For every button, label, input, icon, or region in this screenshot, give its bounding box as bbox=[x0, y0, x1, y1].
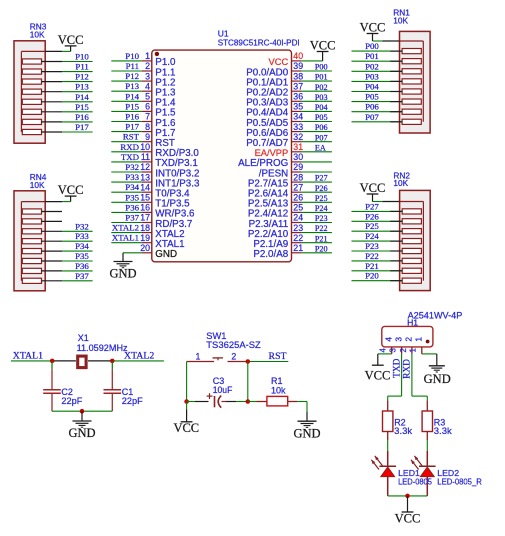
net label RST + wire bbox=[248, 351, 288, 362]
svg-text:29: 29 bbox=[293, 162, 303, 172]
U1 pin 8 (P1.7): pin stub, wire, pin number, pin name bbox=[111, 122, 175, 139]
svg-text:P11: P11 bbox=[75, 62, 88, 72]
svg-text:36: 36 bbox=[293, 92, 303, 102]
svg-text:P14: P14 bbox=[125, 91, 139, 101]
junction node SW1 left bottom bbox=[184, 399, 189, 404]
RN2 resistor element 3 + wire + net label P25 bbox=[352, 221, 422, 234]
U1 pin 1 (P1.0): pin stub, wire, pin number, pin name bbox=[111, 51, 176, 68]
svg-text:40: 40 bbox=[293, 51, 303, 61]
svg-text:14: 14 bbox=[140, 182, 150, 192]
resistor network RN2 10K body bbox=[400, 190, 431, 290]
ground symbol at U1 pin 20 bbox=[109, 253, 136, 281]
RN4 resistor element 3 + wire + net label P32 bbox=[22, 221, 92, 234]
svg-text:P35: P35 bbox=[125, 192, 139, 202]
svg-text:STC89C51RC-40I-PDI: STC89C51RC-40I-PDI bbox=[218, 37, 300, 47]
RN2 common pin wire to VCC bbox=[373, 201, 424, 203]
svg-text:26: 26 bbox=[293, 193, 303, 203]
svg-text:P24: P24 bbox=[315, 204, 328, 213]
svg-text:31: 31 bbox=[293, 142, 303, 152]
svg-text:10k: 10k bbox=[271, 385, 286, 395]
U1 pin 7 (P1.6): pin stub, wire, pin number, pin name bbox=[111, 112, 176, 129]
H1 pin 1 wire to GND bbox=[422, 354, 437, 366]
U1 pin 15 (T1/P3.5): pin stub, wire, pin number, pin name bbox=[111, 192, 190, 209]
svg-text:1: 1 bbox=[414, 337, 424, 342]
RN4 resistor element 5 + wire + net label P34 bbox=[22, 241, 92, 254]
H1 pin 3: stub and rotated pin numbers bbox=[389, 337, 404, 354]
svg-text:12: 12 bbox=[140, 162, 150, 172]
svg-text:3: 3 bbox=[393, 337, 403, 342]
part number STC89C51RC-40I-PDI bbox=[218, 37, 300, 47]
svg-text:1: 1 bbox=[145, 51, 150, 61]
svg-text:22: 22 bbox=[293, 233, 303, 243]
svg-text:P33: P33 bbox=[125, 172, 139, 182]
svg-text:6: 6 bbox=[145, 102, 150, 112]
svg-text:10K: 10K bbox=[30, 30, 45, 40]
VCC power symbol at RN1 bbox=[360, 21, 386, 42]
svg-text:1: 1 bbox=[196, 352, 201, 362]
H1 pin 4 wire to VCC bbox=[378, 354, 392, 365]
svg-text:P27: P27 bbox=[365, 201, 379, 211]
svg-text:XTAL2: XTAL2 bbox=[124, 350, 154, 361]
svg-text:11: 11 bbox=[141, 152, 150, 162]
U1 pin 6 (P1.5): pin stub, wire, pin number, pin name bbox=[111, 101, 176, 118]
svg-text:5: 5 bbox=[145, 92, 150, 102]
designator X1 bbox=[78, 333, 89, 343]
wire LED bottom bus bbox=[388, 495, 428, 497]
svg-text:P07: P07 bbox=[365, 112, 379, 122]
svg-text:P32: P32 bbox=[125, 162, 139, 172]
U1 pin 28 (P2.7/A15): pin stub, wire, pin number, pin name bbox=[248, 172, 332, 189]
VCC power symbol at RN2 bbox=[360, 181, 386, 202]
RN3 resistor element 2 + wire + net label P11 bbox=[22, 62, 92, 75]
svg-text:LED-0805: LED-0805 bbox=[398, 477, 432, 487]
junction node XTAL1/C2 bbox=[50, 359, 55, 364]
header H1 A2541WV-4P body bbox=[382, 326, 433, 347]
svg-text:22pF: 22pF bbox=[61, 396, 83, 406]
svg-text:39: 39 bbox=[293, 61, 303, 71]
VCC power symbol at H1 pin 4 bbox=[365, 365, 391, 382]
RN3 resistor element 7 + wire + net label P16 bbox=[22, 112, 92, 125]
RN2 resistor element 7 + wire + net label P21 bbox=[352, 261, 422, 274]
VCC power symbol at RN4 bbox=[58, 183, 84, 202]
part number A2541WV-4P bbox=[408, 311, 463, 321]
net label XTAL1 + wire bbox=[11, 350, 52, 361]
svg-text:24: 24 bbox=[293, 213, 303, 223]
svg-text:21: 21 bbox=[293, 243, 303, 253]
svg-text:20: 20 bbox=[140, 243, 150, 253]
svg-text:P01: P01 bbox=[315, 73, 328, 82]
svg-text:P00: P00 bbox=[365, 41, 379, 51]
svg-text:GND: GND bbox=[109, 267, 136, 281]
ground symbol below C1/C2 bbox=[68, 411, 95, 440]
svg-text:P21: P21 bbox=[315, 234, 328, 243]
RN1 resistor element 3 + wire + net label P02 bbox=[352, 61, 422, 74]
svg-text:VCC: VCC bbox=[360, 181, 386, 195]
U1 pin 16 (WR/P3.6): pin stub, wire, pin number, pin name bbox=[111, 202, 195, 219]
svg-text:P17: P17 bbox=[75, 122, 89, 132]
svg-text:P36: P36 bbox=[125, 202, 139, 212]
svg-text:27: 27 bbox=[293, 182, 303, 192]
svg-text:P02: P02 bbox=[315, 83, 328, 92]
svg-text:XTAL2: XTAL2 bbox=[112, 223, 139, 233]
svg-text:37: 37 bbox=[293, 81, 303, 91]
svg-text:LED-0805_R: LED-0805_R bbox=[437, 477, 482, 487]
LED LED2 LED-0805_R bbox=[411, 440, 436, 496]
svg-text:RST: RST bbox=[269, 351, 287, 362]
svg-text:P34: P34 bbox=[75, 241, 89, 251]
svg-text:P05: P05 bbox=[315, 113, 328, 122]
svg-text:VCC: VCC bbox=[58, 183, 84, 197]
svg-text:32: 32 bbox=[293, 132, 303, 142]
svg-text:13: 13 bbox=[140, 172, 150, 182]
svg-text:P22: P22 bbox=[315, 224, 328, 233]
svg-text:25: 25 bbox=[293, 203, 303, 213]
RN1 resistor element 8 + wire + net label P07 bbox=[352, 112, 422, 125]
svg-text:P34: P34 bbox=[125, 182, 139, 192]
svg-text:23: 23 bbox=[293, 223, 303, 233]
value LED-0805 (LED1) bbox=[398, 477, 432, 487]
svg-text:P06: P06 bbox=[365, 102, 379, 112]
VCC power symbol below SW1 bbox=[173, 402, 199, 436]
svg-text:TS3625A-SZ: TS3625A-SZ bbox=[206, 340, 261, 350]
designator LED1 bbox=[398, 468, 420, 478]
RN4 common pin wire to VCC bbox=[21, 201, 70, 203]
svg-text:VCC: VCC bbox=[360, 21, 386, 35]
svg-text:P17: P17 bbox=[125, 122, 139, 132]
value 10uF bbox=[213, 385, 233, 395]
svg-text:10: 10 bbox=[140, 142, 150, 152]
svg-text:GND: GND bbox=[424, 372, 451, 386]
U1 pin 36 (P0.3/AD3): pin stub, wire, pin number, pin name bbox=[246, 92, 332, 109]
svg-text:3: 3 bbox=[145, 71, 150, 81]
U1 pin 3 (P1.2): pin stub, wire, pin number, pin name bbox=[111, 71, 175, 88]
U1 pin 29 (/PESN): pin stub, wire, pin number, pin name bbox=[259, 162, 332, 179]
svg-text:P23: P23 bbox=[315, 214, 328, 223]
svg-text:11.0592MHz: 11.0592MHz bbox=[77, 343, 128, 353]
svg-text:P14: P14 bbox=[75, 92, 89, 102]
RN2 resistor element 2 + wire + net label P26 bbox=[352, 211, 422, 224]
U1 pin 37 (P0.2/AD2): pin stub, wire, pin number, pin name bbox=[246, 81, 332, 98]
svg-text:P37: P37 bbox=[125, 213, 139, 223]
svg-text:RST: RST bbox=[123, 132, 140, 142]
svg-text:P10: P10 bbox=[75, 52, 89, 62]
designator C3 text bbox=[213, 376, 225, 386]
U1 pin 17 (RD/P3.7): pin stub, wire, pin number, pin name bbox=[111, 213, 192, 230]
VCC power symbol at U1 pin 40 bbox=[310, 39, 336, 61]
U1 pin 25 (P2.4/A12): pin stub, wire, pin number, pin name bbox=[248, 203, 332, 220]
U1 pin 32 (P0.7/AD7): pin stub, wire, pin number, pin name bbox=[246, 132, 332, 149]
U1 pin 14 (T0/P3.4): pin stub, wire, pin number, pin name bbox=[111, 182, 190, 199]
value 10K (RN4) bbox=[30, 180, 45, 190]
RN1 resistor element 1 + wire + net label P00 bbox=[352, 41, 422, 54]
svg-text:P12: P12 bbox=[75, 72, 89, 82]
svg-text:4: 4 bbox=[145, 81, 150, 91]
RN1 resistor element 5 + wire + net label P04 bbox=[352, 82, 422, 95]
resistor network RN1 10K body bbox=[400, 31, 431, 133]
svg-text:P13: P13 bbox=[125, 81, 139, 91]
svg-text:2: 2 bbox=[404, 337, 414, 342]
junction node RST top bbox=[246, 359, 251, 364]
RN3 resistor element 5 + wire + net label P14 bbox=[22, 92, 92, 105]
RN4 resistor element 6 + wire + net label P35 bbox=[22, 251, 92, 264]
svg-text:1: 1 bbox=[409, 348, 418, 352]
U1 pin 19 (XTAL1): pin stub, wire, pin number, pin name bbox=[111, 233, 184, 250]
U1 pin 4 (P1.3): pin stub, wire, pin number, pin name bbox=[111, 81, 176, 98]
value 11.0592MHz bbox=[77, 343, 128, 353]
svg-text:P03: P03 bbox=[315, 93, 328, 102]
svg-text:P24: P24 bbox=[365, 231, 379, 241]
svg-text:XTAL1: XTAL1 bbox=[112, 233, 139, 243]
svg-text:7: 7 bbox=[145, 112, 150, 122]
U1 pin 18 (XTAL2): pin stub, wire, pin number, pin name bbox=[111, 223, 184, 240]
U1 pin 12 (INT0/P3.2): pin stub, wire, pin number, pin name bbox=[111, 162, 199, 179]
svg-text:P23: P23 bbox=[365, 241, 379, 251]
svg-text:VCC: VCC bbox=[173, 421, 199, 435]
svg-text:P12: P12 bbox=[125, 71, 139, 81]
svg-text:P15: P15 bbox=[75, 102, 89, 112]
value 10K (RN2) bbox=[393, 178, 408, 188]
svg-text:EA: EA bbox=[315, 143, 326, 152]
svg-text:P04: P04 bbox=[365, 82, 379, 92]
RN3 resistor element 6 + wire + net label P15 bbox=[22, 102, 92, 115]
U1 pin 38 (P0.1/AD1): pin stub, wire, pin number, pin name bbox=[246, 71, 332, 88]
svg-text:38: 38 bbox=[293, 71, 303, 81]
RN2 resistor element 8 + wire + net label P20 bbox=[352, 271, 422, 284]
U1 pin 31 (EA/VPP): pin stub, wire, pin number, pin name bbox=[255, 142, 332, 158]
svg-text:RXD: RXD bbox=[403, 359, 413, 379]
svg-text:VCC: VCC bbox=[395, 512, 421, 526]
svg-text:P13: P13 bbox=[75, 82, 89, 92]
svg-text:P26: P26 bbox=[315, 184, 328, 193]
svg-text:P00: P00 bbox=[315, 63, 328, 72]
designator H1 bbox=[407, 317, 418, 327]
IC U1 STC89C51RC-40I-PDI body bbox=[152, 50, 292, 262]
resistor R3 3.3k bbox=[422, 400, 452, 440]
VCC power symbol below LEDs bbox=[395, 496, 421, 526]
svg-text:P16: P16 bbox=[75, 112, 89, 122]
svg-text:35: 35 bbox=[293, 102, 303, 112]
svg-text:P35: P35 bbox=[75, 251, 89, 261]
switch SW1 symbol with pins 1 and 2 bbox=[187, 352, 248, 362]
svg-text:P02: P02 bbox=[365, 61, 379, 71]
designator RN3 bbox=[30, 22, 47, 32]
U1 pin 11 (TXD/P3.1): pin stub, wire, pin number, pin name bbox=[111, 152, 197, 169]
svg-text:P22: P22 bbox=[365, 251, 379, 261]
designator SW1 bbox=[206, 331, 226, 341]
svg-text:GND: GND bbox=[293, 426, 320, 440]
H1 pin 2: stub and rotated pin numbers bbox=[399, 337, 414, 354]
svg-text:P20: P20 bbox=[365, 271, 379, 281]
H1 pin 1: stub and rotated pin numbers bbox=[409, 337, 424, 354]
svg-text:2: 2 bbox=[145, 61, 150, 71]
svg-text:2: 2 bbox=[231, 352, 236, 362]
svg-text:10K: 10K bbox=[393, 15, 408, 25]
RN3 resistor element 1 + wire + net label P10 bbox=[22, 52, 92, 65]
svg-text:28: 28 bbox=[293, 172, 303, 182]
net label RXD (rotated) + H1 pin 2 wire bbox=[403, 354, 428, 400]
designator LED2 bbox=[437, 468, 459, 478]
value 10K (RN1) bbox=[393, 15, 408, 25]
svg-text:P04: P04 bbox=[315, 103, 328, 112]
svg-text:15: 15 bbox=[140, 193, 150, 203]
svg-text:P25: P25 bbox=[365, 221, 379, 231]
svg-text:22pF: 22pF bbox=[122, 396, 144, 406]
U1 pin 34 (P0.5/AD5): pin stub, wire, pin number, pin name bbox=[246, 112, 332, 129]
svg-text:P07: P07 bbox=[315, 133, 328, 142]
svg-text:TXD: TXD bbox=[392, 358, 402, 377]
svg-text:8: 8 bbox=[145, 122, 150, 132]
U1 pin 10 (RXD/P3.0): pin stub, wire, pin number, pin name bbox=[111, 142, 199, 159]
U1 pin 27 (P2.6/A14): pin stub, wire, pin number, pin name bbox=[248, 182, 332, 199]
resistor R2 3.3k bbox=[383, 400, 413, 440]
svg-text:EA/VPP: EA/VPP bbox=[255, 148, 289, 158]
designator RN1 bbox=[393, 8, 410, 18]
U1 pin 33 (P0.6/AD6): pin stub, wire, pin number, pin name bbox=[246, 122, 332, 139]
RN1 resistor element 6 + wire + net label P05 bbox=[352, 92, 422, 105]
svg-text:VCC: VCC bbox=[58, 33, 84, 47]
svg-text:P03: P03 bbox=[365, 71, 379, 81]
svg-text:P21: P21 bbox=[365, 261, 379, 271]
LED LED1 LED-0805 bbox=[371, 440, 396, 496]
value LED-0805_R (LED2) bbox=[437, 477, 482, 487]
svg-text:P37: P37 bbox=[75, 271, 89, 281]
U1 pin 23 (P2.2/A10): pin stub, wire, pin number, pin name bbox=[248, 223, 332, 240]
svg-text:P33: P33 bbox=[75, 231, 89, 241]
RN1 resistor element 2 + wire + net label P01 bbox=[352, 51, 422, 64]
U1 pin 24 (P2.3/A11): pin stub, wire, pin number, pin name bbox=[249, 213, 332, 230]
U1 pin 5 (P1.4): pin stub, wire, pin number, pin name bbox=[111, 91, 176, 108]
H1 pin 4: stub and rotated pin numbers bbox=[379, 337, 394, 354]
RN2 resistor element 4 + wire + net label P24 bbox=[352, 231, 422, 244]
wire left side of SW1 bbox=[186, 362, 188, 402]
designator RN2 bbox=[393, 170, 410, 180]
svg-text:34: 34 bbox=[293, 112, 303, 122]
svg-text:P2.0/A8: P2.0/A8 bbox=[253, 249, 288, 260]
wire C2-C1 bottom bus bbox=[52, 410, 112, 412]
capacitor C1 22pF bbox=[104, 361, 144, 411]
resistor R1 10k bbox=[248, 376, 297, 406]
svg-text:P11: P11 bbox=[126, 61, 139, 71]
svg-text:2: 2 bbox=[399, 348, 408, 352]
RN3 common pin wire to VCC bbox=[21, 50, 70, 52]
svg-text:P05: P05 bbox=[365, 92, 379, 102]
svg-text:P01: P01 bbox=[365, 51, 379, 61]
U1 pin 21 (P2.0/A8): pin stub, wire, pin number, pin name bbox=[253, 243, 332, 260]
svg-text:P06: P06 bbox=[315, 123, 328, 132]
svg-text:3.3k: 3.3k bbox=[434, 426, 452, 436]
capacitor C2 22pF bbox=[43, 361, 83, 411]
part number TS3625A-SZ bbox=[206, 340, 261, 350]
svg-text:30: 30 bbox=[293, 152, 303, 162]
RN4 resistor element 2 + wire bbox=[22, 219, 62, 224]
svg-text:P10: P10 bbox=[125, 51, 139, 61]
wire RST vertical bbox=[247, 362, 249, 402]
junction node XTAL2/C1 bbox=[110, 359, 115, 364]
RN4 resistor element 8 + wire + net label P37 bbox=[22, 271, 92, 284]
svg-text:VCC: VCC bbox=[269, 57, 289, 67]
designator U1 bbox=[218, 29, 229, 39]
RN4 resistor element 7 + wire + net label P36 bbox=[22, 261, 92, 274]
ground symbol right of R1 bbox=[293, 412, 320, 441]
VCC power symbol at RN3 bbox=[58, 33, 84, 52]
svg-text:P16: P16 bbox=[125, 112, 139, 122]
svg-text:VCC: VCC bbox=[365, 369, 391, 383]
RN3 resistor element 3 + wire + net label P12 bbox=[22, 72, 92, 85]
U1 pin 2 (P1.1): pin stub, wire, pin number, pin name bbox=[111, 61, 175, 78]
U1 pin 22 (P2.1/A9): pin stub, wire, pin number, pin name bbox=[253, 233, 332, 250]
junction node LED bus / VCC bbox=[405, 494, 410, 499]
svg-text:GND: GND bbox=[68, 426, 95, 440]
svg-text:3.3k: 3.3k bbox=[394, 426, 412, 436]
capacitor C3 10uF (polarized) bbox=[187, 393, 248, 408]
U1 pin 20 (GND): pin stub, wire, pin number, pin name bbox=[123, 243, 177, 260]
U1 pin 39 (P0.0/AD0): pin stub, wire, pin number, pin name bbox=[246, 61, 332, 78]
value 10K (RN3) bbox=[30, 30, 45, 40]
U1 pin 26 (P2.5/A13): pin stub, wire, pin number, pin name bbox=[248, 193, 332, 210]
svg-text:TXD: TXD bbox=[121, 152, 139, 162]
svg-text:GND: GND bbox=[155, 249, 177, 260]
RN3 resistor element 8 + wire + net label P17 bbox=[22, 122, 92, 135]
svg-text:RXD: RXD bbox=[120, 142, 139, 152]
svg-text:17: 17 bbox=[140, 213, 150, 223]
RN4 resistor element 1 + wire bbox=[22, 209, 62, 214]
U1 pin 30 (ALE/PROG): pin stub, wire, pin number, pin name bbox=[238, 152, 332, 169]
U1 pin 13 (INT1/P3.3): pin stub, wire, pin number, pin name bbox=[111, 172, 200, 189]
RN1 common pin wire to VCC bbox=[373, 40, 424, 42]
RN3 resistor element 4 + wire + net label P13 bbox=[22, 82, 92, 95]
RN1 resistor element 7 + wire + net label P06 bbox=[352, 102, 422, 115]
resistor network RN4 10K body bbox=[14, 191, 45, 291]
RN4 resistor element 4 + wire + net label P33 bbox=[22, 231, 92, 244]
svg-text:P26: P26 bbox=[365, 211, 379, 221]
svg-text:P20: P20 bbox=[315, 244, 328, 253]
U1 pin 35 (P0.4/AD4): pin stub, wire, pin number, pin name bbox=[246, 102, 332, 119]
svg-text:10uF: 10uF bbox=[213, 385, 233, 395]
svg-text:X1: X1 bbox=[78, 333, 89, 343]
RN2 resistor element 1 + wire + net label P27 bbox=[352, 201, 422, 214]
svg-text:P27: P27 bbox=[315, 174, 328, 183]
resistor network RN3 10K body bbox=[14, 41, 45, 143]
svg-text:16: 16 bbox=[140, 203, 150, 213]
svg-text:VCC: VCC bbox=[310, 39, 336, 53]
svg-text:10K: 10K bbox=[393, 178, 408, 188]
svg-text:4: 4 bbox=[379, 347, 388, 352]
svg-text:P15: P15 bbox=[125, 101, 139, 111]
junction node at GND of caps bbox=[80, 409, 85, 414]
svg-text:9: 9 bbox=[145, 132, 150, 142]
svg-text:P25: P25 bbox=[315, 194, 328, 203]
svg-text:XTAL1: XTAL1 bbox=[13, 350, 43, 361]
svg-text:10K: 10K bbox=[30, 180, 45, 190]
designator RN4 bbox=[30, 172, 47, 182]
RN2 resistor element 6 + wire + net label P22 bbox=[352, 251, 422, 264]
svg-text:33: 33 bbox=[293, 122, 303, 132]
U1 pin 40 (VCC): pin stub, wire, pin number, pin name bbox=[269, 51, 323, 67]
RN2 resistor element 5 + wire + net label P23 bbox=[352, 241, 422, 254]
svg-text:18: 18 bbox=[140, 223, 150, 233]
svg-text:P32: P32 bbox=[75, 221, 89, 231]
svg-text:P36: P36 bbox=[75, 261, 89, 271]
ground symbol at H1 pin 1 bbox=[424, 366, 451, 386]
wire R1 to ground bbox=[297, 402, 307, 412]
junction node RST bottom bbox=[246, 399, 251, 404]
net label XTAL2 + wire bbox=[112, 350, 164, 361]
svg-text:4: 4 bbox=[383, 337, 393, 342]
crystal X1 symbol bbox=[52, 356, 112, 368]
RN1 resistor element 4 + wire + net label P03 bbox=[352, 71, 422, 84]
net label TXD (rotated) + H1 pin 3 wire bbox=[388, 354, 403, 400]
svg-text:3: 3 bbox=[389, 348, 398, 352]
